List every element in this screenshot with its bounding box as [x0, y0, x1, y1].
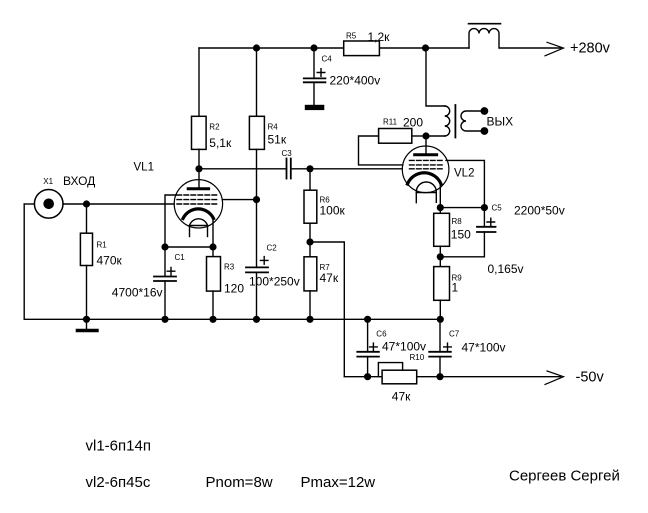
- svg-text:C2: C2: [267, 244, 278, 253]
- output terminal dot top: [481, 108, 487, 114]
- svg-text:Pmax=12w: Pmax=12w: [301, 474, 376, 491]
- svg-text:470к: 470к: [97, 254, 123, 268]
- tube VL1 cathode: [183, 209, 214, 219]
- wire VL2 screen to C5 node: [446, 160, 484, 207]
- wire anode node to C3: [199, 168, 287, 170]
- wire primary branch down from rail: [426, 48, 445, 106]
- svg-text:4700*16v: 4700*16v: [112, 286, 163, 300]
- plus mark C7: [444, 343, 452, 351]
- junction C7 bottom: [437, 374, 443, 380]
- junction C6 top: [365, 316, 371, 322]
- tube VL2 envelope: [402, 146, 449, 193]
- junction VL2 cathode node: [437, 205, 443, 211]
- svg-text:51к: 51к: [268, 133, 287, 147]
- transformer T1 primary winding: [445, 106, 450, 136]
- svg-text:0,165v: 0,165v: [488, 262, 524, 276]
- junction VL1 anode node: [196, 166, 202, 172]
- svg-text:150: 150: [451, 228, 471, 242]
- svg-text:R1: R1: [97, 241, 108, 250]
- wire R2 branch from top rail: [198, 48, 200, 116]
- plus mark C4: [317, 69, 325, 77]
- resistor R8: [434, 208, 450, 257]
- capacitor C2: [246, 200, 268, 320]
- ground bar below C4: [305, 105, 325, 110]
- resistor R3: [207, 247, 221, 319]
- wire VL2 cathode lead: [439, 184, 441, 208]
- wire bias node to -50v rail: [310, 242, 344, 377]
- tube VL1 heater: [190, 219, 208, 237]
- junction R1 bottom: [84, 316, 90, 322]
- arrow +280v: [545, 42, 564, 56]
- junction C1 cathode node: [162, 244, 168, 250]
- tube VL1 anode bar: [188, 187, 208, 190]
- junction C6 bottom: [365, 374, 371, 380]
- inductor L1 choke: [469, 24, 501, 48]
- svg-text:47к: 47к: [320, 271, 339, 285]
- tube VL2 cathode: [408, 173, 442, 184]
- resistor R7: [304, 242, 317, 319]
- svg-text:120: 120: [224, 282, 244, 296]
- svg-text:47к: 47к: [392, 390, 411, 404]
- junction C2 bottom: [254, 316, 260, 322]
- plus mark C5: [487, 218, 495, 226]
- junction R7 bottom: [307, 316, 313, 322]
- wire -50v rail: [344, 376, 560, 378]
- svg-text:+280v: +280v: [570, 41, 611, 57]
- junction R6/R7 bias node: [307, 239, 313, 245]
- capacitor C7: [429, 319, 451, 376]
- svg-text:C5: C5: [492, 204, 503, 213]
- wire VL1 screen grid to R4/C2 node: [222, 199, 256, 201]
- junction R4 top rail: [254, 45, 260, 51]
- svg-text:1: 1: [452, 281, 459, 295]
- transformer T1 core: [454, 105, 456, 138]
- svg-text:ВХОД: ВХОД: [63, 174, 95, 188]
- plus mark C6: [370, 343, 378, 351]
- svg-text:ВЫХ: ВЫХ: [487, 115, 514, 129]
- svg-text:R5: R5: [346, 32, 357, 41]
- svg-text:C1: C1: [175, 253, 186, 262]
- capacitor C6: [357, 319, 379, 376]
- wire VL1 anode lead: [198, 169, 200, 189]
- svg-text:VL1: VL1: [134, 162, 154, 174]
- junction VL2 anode node: [423, 133, 429, 139]
- svg-text:C3: C3: [282, 149, 293, 158]
- svg-text:C4: C4: [322, 55, 333, 64]
- junction R4/C2/g2 node: [254, 197, 260, 203]
- tube VL2 grid rows: [410, 160, 444, 168]
- resistor R9: [434, 257, 450, 320]
- wire +280v top rail: [199, 47, 561, 49]
- resistor R6: [304, 169, 317, 242]
- wire primary bottom to anode node: [426, 135, 445, 137]
- svg-text:C6: C6: [376, 330, 387, 339]
- junction C1 bottom: [162, 316, 168, 322]
- capacitor C5: [440, 208, 495, 257]
- svg-text:R2: R2: [209, 123, 220, 132]
- wire R4 branch from top rail: [256, 48, 258, 116]
- wire input to VL1 grid: [63, 203, 174, 205]
- svg-text:Pnom=8w: Pnom=8w: [206, 474, 273, 491]
- junction R3 cathode node: [210, 244, 216, 250]
- plus mark C1: [167, 267, 175, 275]
- svg-text:5,1к: 5,1к: [209, 136, 232, 150]
- svg-text:100к: 100к: [320, 204, 346, 218]
- svg-text:-50v: -50v: [576, 370, 605, 386]
- svg-text:R11: R11: [383, 118, 398, 127]
- junction R3 bottom: [210, 316, 216, 322]
- svg-text:Сергеев Сергей: Сергеев Сергей: [509, 468, 620, 485]
- wire cathode node to C5: [440, 207, 484, 209]
- svg-text:1,2к: 1,2к: [368, 30, 391, 44]
- junction C5 node: [482, 205, 488, 211]
- svg-text:200: 200: [403, 116, 423, 130]
- connector X1 input jack: [34, 190, 63, 219]
- svg-text:vl2-6п45с: vl2-6п45с: [86, 474, 151, 491]
- resistor R11: [379, 129, 426, 144]
- wire C3 to VL2 grid: [291, 168, 403, 170]
- resistor R1: [80, 204, 92, 319]
- junction C4 top rail: [311, 45, 317, 51]
- junction R6 grid node: [307, 166, 313, 172]
- arrow -50v: [545, 371, 564, 385]
- wire VL1 cathode lead: [212, 219, 214, 248]
- junction choke/primary node: [423, 45, 429, 51]
- svg-text:X1: X1: [43, 177, 53, 186]
- svg-text:vl1-6п14п: vl1-6п14п: [86, 438, 151, 455]
- svg-text:2200*50v: 2200*50v: [514, 204, 565, 218]
- svg-text:220*400v: 220*400v: [330, 74, 381, 88]
- wire VL1 g3 bracket to cathode node: [165, 195, 176, 247]
- capacitor C1: [154, 247, 176, 319]
- svg-text:100*250v: 100*250v: [249, 275, 300, 289]
- junction R8/R9/C5 node: [437, 254, 443, 260]
- svg-text:R4: R4: [268, 123, 279, 132]
- tube VL2 heater: [416, 182, 436, 203]
- wire cathode node: [165, 246, 213, 248]
- capacitor C3: [287, 159, 291, 179]
- resistor R4: [249, 116, 264, 199]
- junction R1 top: [84, 201, 90, 207]
- svg-text:C7: C7: [449, 330, 460, 339]
- transformer T1 secondary winding: [461, 111, 484, 131]
- plus mark C2: [260, 257, 268, 265]
- svg-text:47*100v: 47*100v: [382, 340, 426, 354]
- wire VL2 anode lead: [425, 136, 427, 155]
- junction R9 bottom rail end: [437, 316, 443, 322]
- svg-text:VL2: VL2: [454, 168, 474, 180]
- wire R11 to VL2 feedback grid: [359, 136, 403, 165]
- tube VL1 envelope: [174, 180, 222, 228]
- output terminal dot bottom: [481, 128, 487, 134]
- svg-text:R10: R10: [410, 353, 425, 362]
- svg-text:R8: R8: [452, 217, 463, 226]
- tube VL2 anode bar: [415, 153, 437, 156]
- wire bottom rail: [24, 318, 440, 320]
- wire left rail: [23, 204, 25, 319]
- ground symbol: [77, 319, 97, 330]
- resistor R2: [192, 116, 207, 169]
- svg-text:47*100v: 47*100v: [462, 341, 506, 355]
- resistor R10: [378, 363, 416, 384]
- capacitor C4: [304, 48, 326, 105]
- svg-text:R3: R3: [224, 263, 235, 272]
- resistor R5: [344, 41, 380, 56]
- wire X1 to left rail: [24, 203, 34, 205]
- tube VL1 grid rows: [177, 195, 219, 204]
